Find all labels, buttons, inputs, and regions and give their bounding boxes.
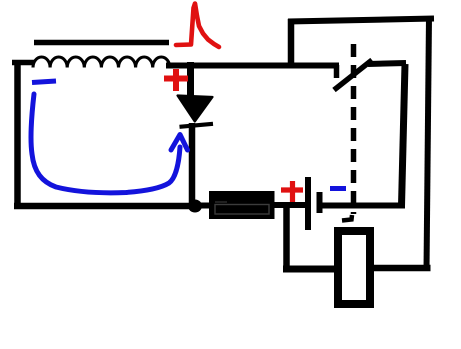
voltage spike waveform bbox=[176, 4, 219, 48]
current arrow head bbox=[171, 135, 188, 151]
diode cathode bar bbox=[180, 124, 214, 127]
resistor body bbox=[209, 191, 275, 219]
wire battery node drop vertical bbox=[283, 204, 290, 271]
inductor coil bbox=[33, 57, 170, 68]
wire switch right terminal bbox=[368, 63, 406, 64]
wire diode anode stub bbox=[187, 62, 194, 97]
wire drop to relay left bbox=[283, 266, 340, 273]
wire top-left corner bbox=[12, 60, 34, 66]
dashed actuator linkage bbox=[351, 44, 357, 214]
resistor inner outline bbox=[215, 205, 269, 215]
switch blade bbox=[334, 60, 372, 90]
junction blob bottom node bbox=[188, 200, 202, 213]
minus sign at battery bbox=[330, 186, 346, 191]
relay coil rectangle bbox=[338, 231, 370, 304]
wire left vertical bbox=[14, 60, 21, 208]
plus sign at diode anode bbox=[164, 69, 188, 91]
dashed linkage bent last dash bbox=[342, 215, 352, 221]
battery short plate bbox=[317, 192, 323, 213]
minus sign top left bbox=[32, 81, 56, 83]
wire bottom of left loop bbox=[14, 203, 201, 210]
wire relay right to outer bbox=[371, 265, 431, 272]
wire outer top bbox=[288, 19, 434, 22]
wire junction to resistor bbox=[198, 203, 211, 209]
diode triangle bbox=[178, 96, 213, 122]
switch left terminal hook bbox=[334, 65, 340, 78]
battery long plate bbox=[305, 177, 311, 230]
wire resistor to battery bbox=[274, 202, 306, 208]
resistor inner stub line bbox=[215, 201, 227, 203]
current arrow curve bbox=[31, 94, 180, 193]
plus sign at battery bbox=[281, 181, 303, 202]
wire diode cathode down bbox=[189, 123, 196, 209]
wire battery to right branch bbox=[322, 203, 405, 209]
wire outer right vertical bbox=[427, 17, 430, 270]
wire inner right vertical bbox=[402, 64, 406, 206]
top plate bar bbox=[34, 40, 169, 46]
wire outer left vertical bbox=[288, 19, 295, 66]
wire inductor to switch bbox=[166, 63, 339, 69]
